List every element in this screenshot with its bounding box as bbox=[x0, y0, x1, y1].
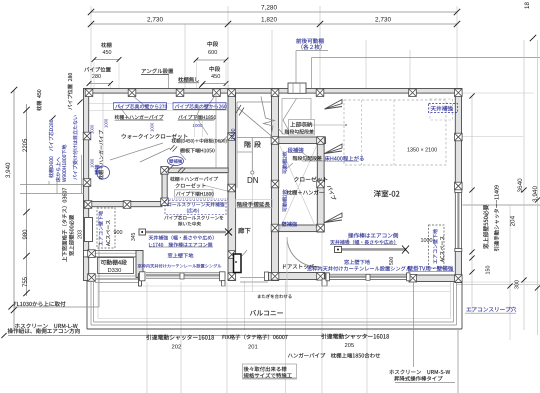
svg-text:600: 600 bbox=[208, 50, 217, 56]
svg-text:2205: 2205 bbox=[23, 138, 29, 152]
svg-text:1000: 1000 bbox=[90, 158, 95, 168]
svg-text:500: 500 bbox=[389, 256, 395, 265]
svg-text:DN: DN bbox=[247, 176, 259, 185]
svg-text:203: 203 bbox=[78, 230, 84, 239]
svg-text:202: 202 bbox=[172, 345, 182, 351]
svg-text:150: 150 bbox=[486, 266, 492, 275]
svg-text:1000: 1000 bbox=[421, 238, 433, 244]
svg-text:755: 755 bbox=[23, 276, 29, 287]
svg-text:3640: 3640 bbox=[517, 178, 524, 193]
svg-text:1000: 1000 bbox=[90, 124, 95, 134]
svg-text:280: 280 bbox=[92, 74, 101, 80]
svg-text:1000: 1000 bbox=[104, 118, 109, 128]
svg-text:900: 900 bbox=[114, 230, 123, 236]
svg-text:7,280: 7,280 bbox=[261, 5, 277, 12]
svg-text:205: 205 bbox=[345, 343, 355, 349]
svg-text:300: 300 bbox=[515, 280, 521, 289]
svg-text:1000: 1000 bbox=[150, 122, 155, 132]
svg-text:450: 450 bbox=[103, 50, 112, 56]
svg-text:204: 204 bbox=[510, 215, 517, 226]
svg-text:2,730: 2,730 bbox=[147, 17, 163, 24]
svg-text:345: 345 bbox=[131, 232, 137, 241]
svg-text:18: 18 bbox=[524, 2, 531, 9]
svg-text:980: 980 bbox=[23, 229, 29, 240]
svg-text:3,940: 3,940 bbox=[532, 186, 539, 202]
svg-text:450: 450 bbox=[211, 74, 220, 80]
svg-text:1350 × 2100: 1350 × 2100 bbox=[407, 148, 437, 154]
svg-text:1400: 1400 bbox=[231, 128, 237, 140]
svg-text:2,730: 2,730 bbox=[375, 17, 391, 24]
svg-text:1,820: 1,820 bbox=[261, 17, 277, 24]
svg-text:3,940: 3,940 bbox=[5, 162, 12, 178]
svg-text:201: 201 bbox=[248, 345, 258, 351]
